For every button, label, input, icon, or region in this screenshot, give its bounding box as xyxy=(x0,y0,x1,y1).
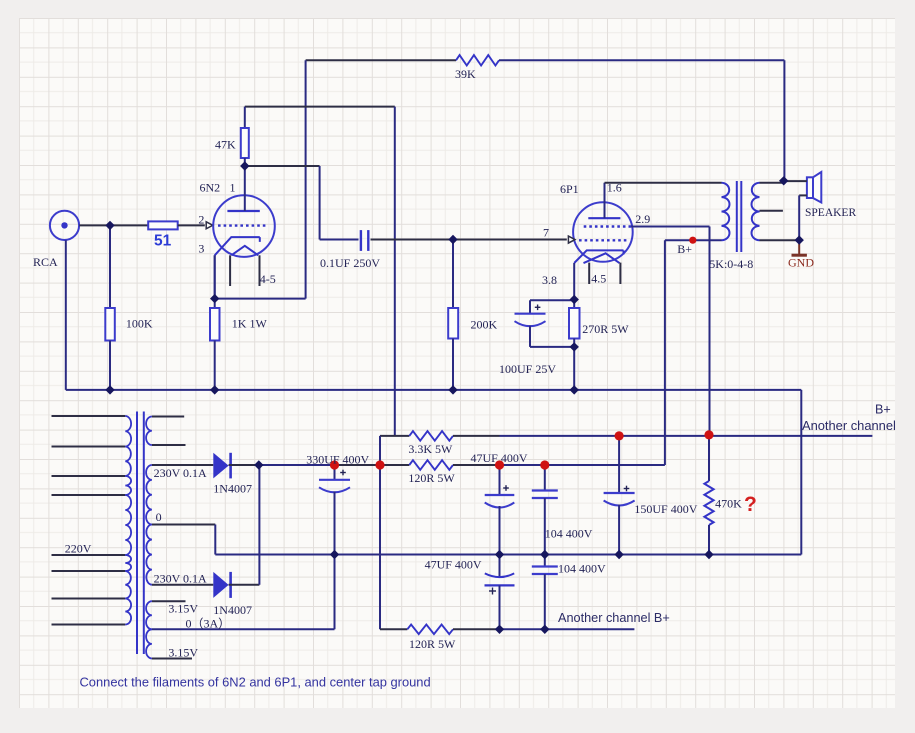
svg-text:330UF 400V: 330UF 400V xyxy=(306,452,369,466)
svg-text:270R 5W: 270R 5W xyxy=(582,322,629,336)
svg-text:1N4007: 1N4007 xyxy=(213,603,252,617)
svg-text:104 400V: 104 400V xyxy=(545,527,593,541)
svg-text:6N2: 6N2 xyxy=(200,181,221,195)
svg-text:B+: B+ xyxy=(875,403,891,417)
svg-text:GND: GND xyxy=(788,256,814,270)
svg-text:0: 0 xyxy=(156,510,162,524)
svg-text:3.8: 3.8 xyxy=(542,273,557,287)
svg-text:0.1UF 250V: 0.1UF 250V xyxy=(320,256,380,270)
svg-text:6P1: 6P1 xyxy=(560,182,579,196)
svg-text:47UF 400V: 47UF 400V xyxy=(471,451,528,465)
svg-text:SPEAKER: SPEAKER xyxy=(805,207,856,219)
svg-text:230V 0.1A: 230V 0.1A xyxy=(154,572,207,586)
svg-text:2: 2 xyxy=(198,213,204,227)
svg-text:230V 0.1A: 230V 0.1A xyxy=(154,466,207,480)
svg-text:1K 1W: 1K 1W xyxy=(232,317,268,331)
svg-text:47UF 400V: 47UF 400V xyxy=(425,557,482,571)
svg-text:B+: B+ xyxy=(677,242,692,256)
svg-text:100K: 100K xyxy=(126,317,153,331)
svg-text:1: 1 xyxy=(230,181,236,195)
svg-text:39K: 39K xyxy=(455,67,476,81)
svg-text:Another channel: Another channel xyxy=(802,418,896,433)
svg-text:200K: 200K xyxy=(471,318,498,332)
svg-text:150UF 400V: 150UF 400V xyxy=(634,502,697,516)
svg-text:100UF 25V: 100UF 25V xyxy=(499,362,556,376)
svg-text:3.3K 5W: 3.3K 5W xyxy=(408,442,453,456)
svg-text:51: 51 xyxy=(154,233,172,250)
svg-text:7: 7 xyxy=(543,226,549,240)
svg-text:1.6: 1.6 xyxy=(607,181,622,195)
svg-text:2.9: 2.9 xyxy=(635,212,650,226)
svg-text:5K:0-4-8: 5K:0-4-8 xyxy=(709,257,753,271)
svg-text:1N4007: 1N4007 xyxy=(213,482,252,496)
svg-text:3: 3 xyxy=(198,242,204,256)
svg-text:120R 5W: 120R 5W xyxy=(409,637,456,651)
svg-text:0（3A）: 0（3A） xyxy=(186,616,231,630)
svg-text:4-5: 4-5 xyxy=(260,272,276,286)
svg-text:120R 5W: 120R 5W xyxy=(408,471,455,485)
svg-text:3.15V: 3.15V xyxy=(168,646,198,660)
svg-text:Connect the filaments of 6N2 a: Connect the filaments of 6N2 and 6P1, an… xyxy=(80,675,431,690)
svg-text:4.5: 4.5 xyxy=(591,272,606,286)
svg-text:?: ? xyxy=(744,493,757,516)
svg-text:RCA: RCA xyxy=(33,255,58,269)
svg-text:104 400V: 104 400V xyxy=(558,562,606,576)
svg-text:220V: 220V xyxy=(65,542,92,556)
svg-text:47K: 47K xyxy=(215,138,236,152)
svg-text:3.15V: 3.15V xyxy=(168,602,198,616)
svg-text:470K: 470K xyxy=(715,496,742,510)
svg-text:Another channel B+: Another channel B+ xyxy=(558,611,670,625)
